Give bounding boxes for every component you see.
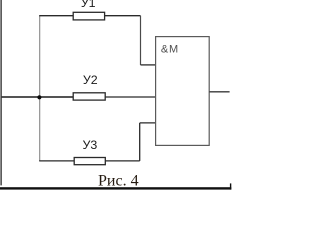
wire: У3 output to corner bbox=[105, 160, 139, 162]
svg-text:&M: &M bbox=[161, 43, 179, 55]
wire: top branch from bus to У1 bbox=[39, 15, 73, 17]
wire: vertical up from У3 branch bbox=[139, 123, 141, 161]
wire: bottom branch from bus to У3 bbox=[39, 160, 74, 162]
svg-text:У1: У1 bbox=[81, 0, 96, 10]
wire: У1 output to corner bbox=[105, 15, 141, 17]
wire: input lead to node and on to У2 bbox=[2, 96, 74, 98]
svg-text:У2: У2 bbox=[83, 73, 98, 87]
svg-text:У3: У3 bbox=[83, 138, 98, 152]
node: input junction dot bbox=[37, 95, 41, 99]
wire: vertical down from У1 branch bbox=[140, 16, 142, 65]
decorative frame (unlabelled): left border, bottom border, right stub bbox=[0, 0, 231, 190]
wire: У2 output to block bbox=[105, 96, 156, 98]
svg-text:Рис. 4: Рис. 4 bbox=[98, 173, 139, 190]
wire: into block top input bbox=[141, 64, 157, 66]
wire: into block bottom input bbox=[140, 122, 156, 124]
logic block &M bbox=[156, 37, 210, 146]
wire: output lead bbox=[209, 91, 229, 93]
amplifier У3 (box) bbox=[74, 158, 105, 165]
amplifier У2 (box) bbox=[73, 93, 105, 100]
wire: vertical bus from top branch to bottom branch bbox=[39, 16, 41, 161]
amplifier У1 (box) bbox=[73, 12, 104, 20]
